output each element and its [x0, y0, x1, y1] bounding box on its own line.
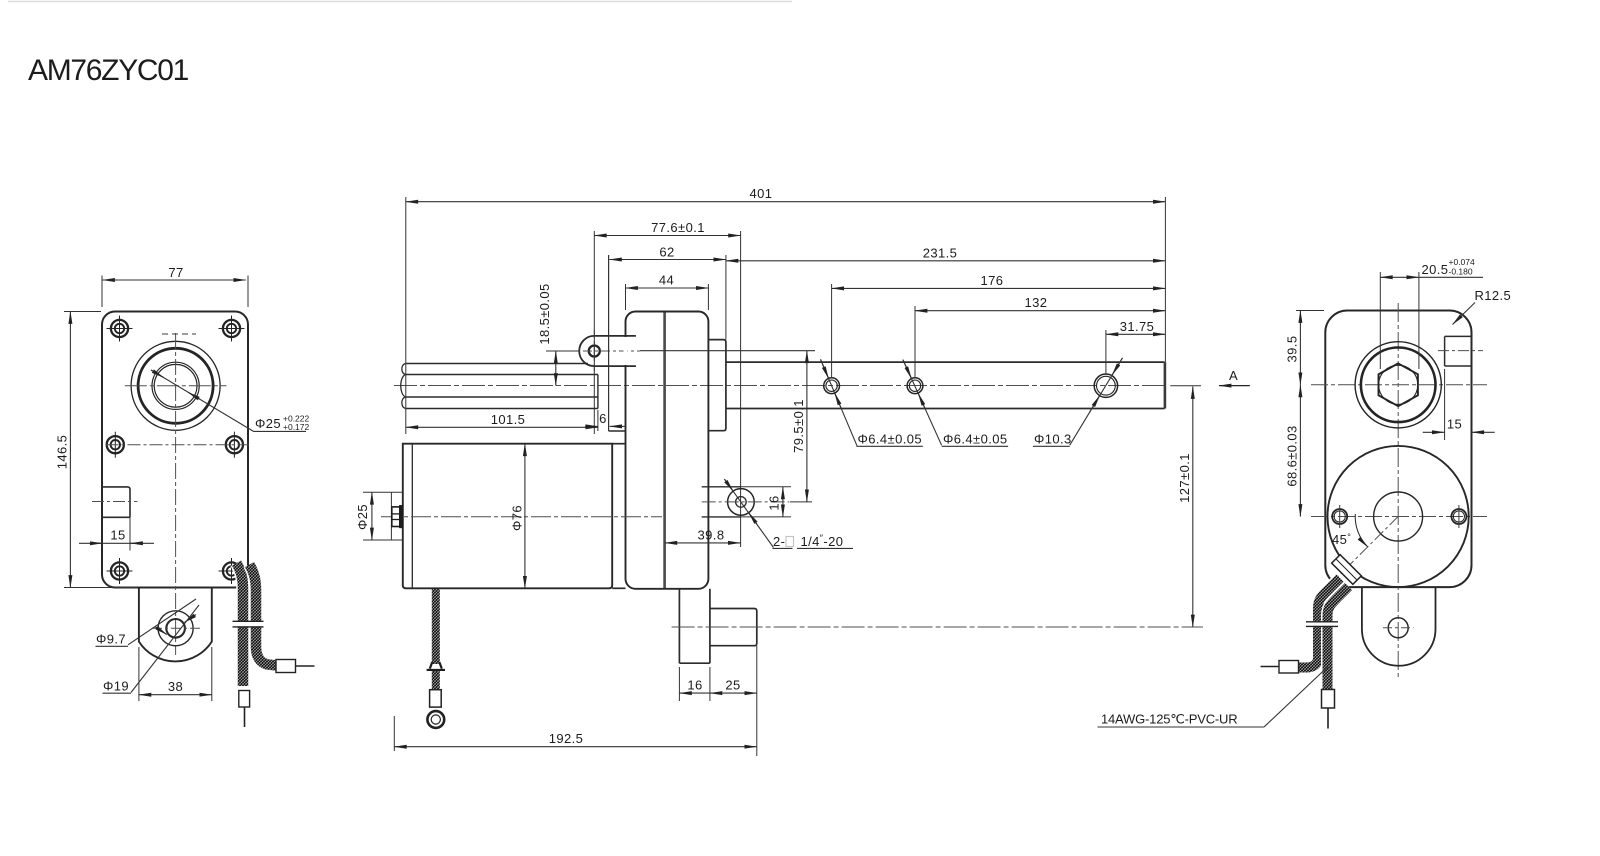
svg-text:14AWG-125℃-PVC-UR: 14AWG-125℃-PVC-UR: [1101, 712, 1237, 727]
gearbox housing rounded body: [626, 312, 709, 589]
outer tube top: [727, 361, 1165, 363]
svg-text:39.5: 39.5: [1285, 336, 1300, 363]
tube hole 2: [907, 378, 923, 394]
screw hole bottom-right: [219, 558, 245, 584]
dimension 62: [725, 255, 727, 340]
main axis centerline: [394, 385, 1167, 387]
leader phi6.4 hole1: [821, 359, 858, 445]
svg-text:2-: 2-: [773, 534, 785, 549]
svg-text:62: 62: [659, 245, 674, 260]
threaded hole circles: [728, 489, 755, 516]
svg-text:16: 16: [767, 495, 782, 510]
output bore circles: [131, 341, 220, 430]
side notch: [102, 487, 130, 517]
clevis eye centerlines: [583, 350, 640, 352]
rear housing body: [1325, 311, 1471, 588]
dimension 77: [103, 279, 246, 281]
dimension 401: [405, 197, 407, 434]
hidden clevis edge dashes: [162, 333, 196, 335]
dimension phi25 rear: [371, 492, 373, 540]
cable gland: [1332, 555, 1362, 585]
clevis plate top edge: [594, 335, 636, 337]
dimension 176: [831, 284, 833, 378]
svg-text:+0.172: +0.172: [283, 422, 310, 432]
svg-text:6: 6: [599, 411, 607, 426]
leader Phi19: [131, 605, 199, 693]
screw hole mid-right: [226, 432, 243, 458]
leader phi10.3 hole3: [1070, 358, 1123, 445]
hex boss inner circle: [1361, 348, 1436, 423]
ram tube left break curls: [401, 364, 406, 409]
svg-text:Φ9.7: Φ9.7: [96, 632, 126, 647]
motor ground wire: [432, 589, 440, 664]
dimension 39.5: [1296, 310, 1324, 312]
wire break symbol: [233, 622, 264, 626]
tab hole: [1388, 618, 1408, 638]
screw hole bottom-left: [107, 558, 133, 584]
tube hole 3: [1094, 374, 1117, 397]
threaded hole centerline: [702, 501, 790, 503]
side block on housing: [708, 340, 726, 431]
side pocket: [1444, 336, 1446, 366]
leader 2-1/4-20: [724, 479, 773, 547]
svg-text:Φ6.4±0.05: Φ6.4±0.05: [858, 432, 922, 447]
dimension 146.5: [69, 312, 71, 588]
motor top closure to housing: [612, 443, 625, 445]
bottom tab: [1362, 587, 1436, 666]
dimension 16 thread: [782, 487, 784, 517]
dimension 16 25 tab: [678, 667, 680, 701]
sheet border faint top line: [8, 1, 792, 3]
outer tube bottom: [727, 408, 1165, 410]
outer tube end cap: [1164, 362, 1167, 408]
dimension 44: [625, 284, 627, 310]
tube hole 1: [824, 378, 840, 394]
dimension 79.5: [640, 350, 815, 352]
gear housing circle: [1328, 446, 1469, 587]
dimension 6: [597, 410, 599, 431]
wire ferrule: [430, 690, 442, 707]
gearbox faceplate outline: [102, 312, 248, 588]
rear tab boss: [710, 609, 757, 646]
svg-text:Φ6.4±0.05: Φ6.4±0.05: [943, 432, 1007, 447]
tab hole centerline: [672, 626, 1203, 628]
svg-text:44: 44: [659, 273, 674, 288]
vertical centerline: [1397, 303, 1399, 678]
dimension phi76: [524, 444, 526, 589]
leader phi6.4 hole2: [903, 360, 942, 446]
plate vertical centerline: [175, 333, 177, 655]
motor axis centerline: [1311, 516, 1487, 518]
svg-text:16: 16: [687, 678, 702, 693]
section arrow A: [1219, 385, 1250, 387]
dimension 68.6: [1299, 385, 1301, 517]
svg-text:Φ10.3: Φ10.3: [1034, 432, 1072, 447]
svg-text:Φ19: Φ19: [103, 679, 129, 694]
screw hole mid-left: [107, 432, 124, 458]
wire strand inner: [1328, 587, 1349, 690]
svg-text:38: 38: [168, 679, 183, 694]
wire ferrule bottom: [239, 691, 250, 708]
svg-text:231.5: 231.5: [923, 245, 958, 260]
wire exit left view: [237, 563, 244, 686]
rear tab narrow: [678, 589, 680, 663]
dimension 132: [914, 306, 916, 378]
wire connector right: [276, 660, 296, 673]
dimension 18.5: [546, 350, 580, 352]
45 deg line: [1336, 517, 1398, 579]
wire break: [1306, 622, 1338, 626]
dimension 31.75: [1105, 330, 1107, 374]
hex socket: [1379, 363, 1418, 406]
svg-text:146.5: 146.5: [55, 435, 70, 470]
hex boss outer circle: [1355, 342, 1441, 428]
45 deg arc: [1355, 514, 1367, 547]
svg-text:-0.180: -0.180: [1449, 267, 1473, 277]
svg-text:45°: 45°: [1332, 532, 1351, 547]
dimension 15: [79, 542, 154, 544]
svg-text:+0.074: +0.074: [1449, 257, 1476, 267]
clevis plate bottom edge: [594, 365, 636, 367]
dimension 77.6: [593, 231, 595, 434]
wire strand outer: [1299, 578, 1341, 668]
screw hole top-left: [107, 316, 133, 342]
svg-text:A: A: [1229, 368, 1238, 383]
dimension 231.5: [726, 260, 1166, 262]
rear shaft nut: [390, 493, 392, 541]
svg-text:176: 176: [981, 273, 1004, 288]
svg-text:18.5±0.05: 18.5±0.05: [537, 283, 552, 344]
svg-text:79.5±0.1: 79.5±0.1: [791, 399, 806, 453]
svg-text:15: 15: [110, 528, 125, 543]
screw hole top-right: [219, 316, 245, 342]
ram tube end face: [597, 375, 599, 409]
threaded boss lines: [702, 486, 741, 488]
clevis pin hole: [589, 346, 600, 357]
motor axis centerline: [381, 516, 662, 518]
dimension 39.8: [665, 542, 741, 544]
dimension 38: [138, 647, 140, 701]
bottom clevis tab: [139, 588, 212, 662]
dimension 20.5: [1379, 272, 1381, 369]
svg-text:25: 25: [725, 678, 740, 693]
leader Phi25: [151, 370, 254, 431]
svg-text:101.5: 101.5: [491, 412, 526, 427]
centerline mid hole row: [106, 444, 250, 446]
svg-text:132: 132: [1025, 295, 1048, 310]
svg-text:31.75: 31.75: [1120, 319, 1155, 334]
front flange face: [608, 255, 610, 431]
svg-text:192.5: 192.5: [549, 731, 584, 746]
white mask for clevis slot over housing edge: [624, 337, 628, 365]
hex axis centerline: [1311, 384, 1487, 386]
motor end cap line: [411, 444, 413, 589]
wire connector left: [1279, 661, 1299, 674]
dimension 127: [1170, 385, 1201, 387]
bore crosshair horizontal: [125, 385, 227, 387]
hub circle: [1374, 492, 1423, 541]
svg-text:R12.5: R12.5: [1475, 288, 1512, 303]
svg-text:20.5: 20.5: [1422, 262, 1449, 277]
side hole right: [1451, 509, 1466, 524]
svg-text:77.6±0.1: 77.6±0.1: [651, 220, 705, 235]
gear face thick line: [663, 313, 666, 589]
svg-text:39.8: 39.8: [698, 528, 725, 543]
svg-text:Φ76: Φ76: [510, 505, 525, 531]
tab hole: [158, 611, 193, 646]
svg-text:77: 77: [168, 265, 183, 280]
dimension 101.5: [406, 426, 598, 428]
dimension 15: [1444, 369, 1446, 440]
motor body: [403, 444, 612, 589]
ring terminal: [427, 711, 444, 728]
wire ferrule bottom: [1322, 690, 1335, 709]
svg-text:AM76ZYC01: AM76ZYC01: [28, 54, 189, 87]
svg-text:1/4″-20: 1/4″-20: [801, 533, 844, 549]
ram tube lines: [405, 363, 588, 365]
clevis eye arc: [579, 336, 594, 366]
svg-text:Φ25: Φ25: [355, 504, 370, 530]
svg-text:15: 15: [1447, 417, 1462, 432]
wire anchor clip: [430, 662, 442, 669]
svg-text:Φ25: Φ25: [255, 416, 281, 431]
side hole left: [1332, 509, 1347, 524]
dimension 192.5: [393, 716, 395, 751]
svg-text:401: 401: [750, 186, 773, 201]
svg-text:68.6±0.03: 68.6±0.03: [1285, 425, 1300, 486]
svg-text:127±0.1: 127±0.1: [1177, 453, 1192, 503]
leader Phi9.7: [128, 599, 196, 645]
